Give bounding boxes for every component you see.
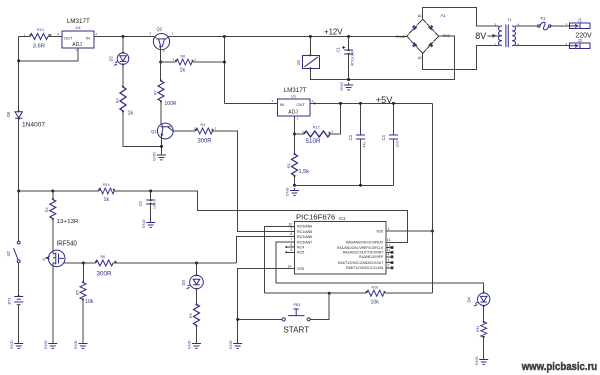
resistor R12 510R zigzag <box>304 131 330 137</box>
svg-text:1: 1 <box>388 227 390 231</box>
svg-text:RC1/AN5: RC1/AN5 <box>297 230 312 234</box>
wire R8 right lead <box>193 61 225 63</box>
svg-text:510R: 510R <box>306 139 322 145</box>
wire C1 top <box>348 37 350 51</box>
junction rail191 R2col <box>51 190 54 193</box>
wire C4 column top <box>393 103 395 135</box>
pin mark U1 out <box>314 103 316 105</box>
wire RC0 net <box>265 226 296 293</box>
capacitor C1 <box>336 46 355 66</box>
wire D4 to R11 <box>483 306 485 322</box>
svg-text:3.6R: 3.6R <box>33 44 45 50</box>
resistor R1 1.5k vertical <box>292 154 298 176</box>
wire secondary top to fuse <box>515 25 539 27</box>
wire U1 ADJ <box>294 116 296 134</box>
svg-text:GND: GND <box>152 152 157 161</box>
svg-text:A1: A1 <box>441 13 447 18</box>
svg-text:VDD: VDD <box>376 229 384 233</box>
ground Q1 <box>152 152 166 161</box>
svg-text:U4: U4 <box>76 25 82 30</box>
svg-text:BT1: BT1 <box>7 296 12 304</box>
svg-text:3: 3 <box>150 32 152 36</box>
svg-text:10k: 10k <box>371 299 380 305</box>
junction button gnd <box>236 318 239 321</box>
svg-text:RC2/AN6: RC2/AN6 <box>297 235 312 239</box>
svg-text:300R: 300R <box>97 272 113 278</box>
resistor R7 100R vertical <box>158 81 164 101</box>
wire button net horizontal <box>265 292 366 294</box>
transistor Q2 <box>153 34 169 50</box>
wire C3 column bottom <box>360 139 362 185</box>
pin marks R12 <box>304 132 306 134</box>
svg-text:Q1: Q1 <box>151 129 157 134</box>
svg-text:R9: R9 <box>189 313 193 318</box>
junction D3 tap <box>195 262 198 265</box>
wire Q2 collector right <box>170 36 407 38</box>
svg-text:1: 1 <box>297 117 299 121</box>
resistor R10 10k zigzag <box>367 290 384 296</box>
wire C4 column bottom <box>393 139 395 185</box>
watermark www.picbasic.ru <box>521 361 598 374</box>
junction node A <box>122 35 125 38</box>
svg-text:GND: GND <box>339 82 344 91</box>
svg-text:100n: 100n <box>153 201 157 209</box>
svg-text:2: 2 <box>96 32 98 36</box>
junction R12 rail <box>339 102 342 105</box>
wire Q3 drain right <box>64 262 83 263</box>
svg-text:5: 5 <box>291 248 293 252</box>
wire bottom rail 5V <box>295 184 394 186</box>
svg-text:100n: 100n <box>396 140 400 148</box>
capacitor C3 <box>348 134 367 147</box>
svg-text:1N4007: 1N4007 <box>22 122 46 129</box>
svg-text:2: 2 <box>312 99 314 103</box>
svg-text:GND: GND <box>73 340 78 349</box>
svg-text:C2: C2 <box>138 200 143 206</box>
svg-text:GND: GND <box>141 219 146 228</box>
junction rail x224 <box>223 35 226 38</box>
wire button left to gnd col <box>238 318 282 320</box>
svg-text:1: 1 <box>173 58 175 62</box>
battery BT1 <box>7 296 24 304</box>
junction rail191 left <box>17 190 20 193</box>
svg-text:RC0/AN4: RC0/AN4 <box>297 225 312 229</box>
junction VDD column <box>431 230 434 233</box>
svg-text:13: 13 <box>387 238 391 242</box>
regulator U1 LM317T box <box>278 99 311 116</box>
svg-text:3: 3 <box>58 32 60 36</box>
wire relay top <box>309 37 311 56</box>
LED D2 <box>109 53 129 66</box>
svg-text:GND: GND <box>285 187 290 196</box>
resistor R2 13+13R vertical <box>50 200 56 219</box>
switch U2 <box>6 241 20 262</box>
wire Q1 base lead right <box>173 130 195 132</box>
wire R12 left lead <box>295 133 305 135</box>
svg-text:U1: U1 <box>291 93 297 98</box>
svg-text:IN: IN <box>280 102 284 107</box>
svg-text:ADJ: ADJ <box>288 110 298 116</box>
junction relay tap <box>309 35 312 38</box>
junction bottom rail left <box>293 184 296 187</box>
svg-text:7: 7 <box>291 237 293 241</box>
svg-text:6: 6 <box>291 243 293 247</box>
resistor R13 3.6R zigzag <box>30 34 48 40</box>
svg-text:PIC16F676: PIC16F676 <box>296 212 335 221</box>
wire Q2emitter to R7 <box>160 62 162 81</box>
wire U4 IN to node A <box>94 36 154 38</box>
IC1 PIC16F676 box <box>294 221 386 273</box>
wire R3 down and right to Q1 emitter <box>123 111 162 146</box>
svg-text:C1: C1 <box>336 46 341 52</box>
wire secondary bottom to J2 <box>515 45 570 47</box>
svg-text:D3: D3 <box>181 279 186 285</box>
svg-text:4: 4 <box>388 253 390 257</box>
svg-text:300R: 300R <box>198 138 213 144</box>
wire U4 ADJ stub <box>19 48 78 61</box>
svg-text:2: 2 <box>332 130 334 134</box>
svg-text:GND: GND <box>43 340 48 349</box>
svg-text:R3: R3 <box>116 98 120 103</box>
svg-text:1: 1 <box>24 33 26 37</box>
wire RC2 net <box>237 237 296 263</box>
wire R7 to Q1 <box>160 101 162 123</box>
wire rail191 segment2 <box>114 191 408 242</box>
wire R4 to column x237 <box>213 131 296 232</box>
IC1 RC4 stub <box>287 246 295 248</box>
junction C4 top <box>392 102 395 105</box>
junction R8 x224 <box>223 61 226 64</box>
svg-text:GND: GND <box>474 356 479 365</box>
svg-text:47u: 47u <box>363 142 367 148</box>
svg-text:J1: J1 <box>578 18 583 23</box>
svg-text:1k: 1k <box>104 197 110 203</box>
wire D2 to R3 <box>122 64 124 87</box>
IC1 right pin names <box>337 229 384 270</box>
svg-text:1: 1 <box>566 22 568 26</box>
svg-text:R4: R4 <box>201 123 206 127</box>
junction Q1 emitter D2col <box>160 145 163 148</box>
resistor R4 300R zigzag <box>196 128 213 134</box>
wire bridge bottom to transformer <box>423 46 499 70</box>
pin marks R13 <box>30 34 32 36</box>
svg-text:2: 2 <box>51 33 53 37</box>
wire node A down to D2 <box>122 37 124 53</box>
svg-text:3: 3 <box>272 99 274 103</box>
svg-text:2: 2 <box>195 58 197 62</box>
IC1 RC5 stub <box>287 251 295 253</box>
svg-text:R6: R6 <box>101 255 106 259</box>
svg-text:R12: R12 <box>313 126 320 130</box>
svg-text:OUT: OUT <box>297 102 306 107</box>
wire bridge minus down <box>439 36 455 79</box>
resistor R3 1k vertical <box>120 87 126 111</box>
svg-text:S: S <box>42 256 45 261</box>
wire Q3 source down <box>52 267 54 342</box>
IC1 left pin names <box>297 225 312 271</box>
svg-text:11: 11 <box>387 248 391 252</box>
svg-text:3: 3 <box>388 258 390 262</box>
wire top rail left segment <box>19 36 30 38</box>
svg-text:R14: R14 <box>103 183 110 187</box>
tap arrow 8V <box>488 34 500 38</box>
wire D5 down to rail191 <box>18 118 20 191</box>
junction Q2 emitter R8 <box>159 61 162 64</box>
svg-text:J2: J2 <box>578 38 583 43</box>
svg-text:ADJ: ADJ <box>72 42 82 48</box>
resistor R11 vertical <box>481 322 487 338</box>
svg-text:OUT: OUT <box>64 36 73 41</box>
wire D3 top <box>196 263 198 275</box>
junction button tap <box>328 292 331 295</box>
svg-text:10k: 10k <box>85 299 94 305</box>
wire R5 bottom <box>82 300 84 342</box>
regulator U4 LM317T box <box>62 31 94 48</box>
wire left column top <box>18 37 20 112</box>
svg-text:GND: GND <box>187 340 192 349</box>
svg-text:IRF540: IRF540 <box>57 241 77 248</box>
wire C3 column top <box>360 103 362 135</box>
resistor R14 1k zigzag <box>99 188 115 194</box>
svg-text:1,5k: 1,5k <box>299 169 310 175</box>
svg-text:14: 14 <box>288 264 292 268</box>
wire R1 bottom <box>294 176 296 186</box>
connector J1 <box>570 23 591 28</box>
svg-text:R1: R1 <box>287 163 291 168</box>
svg-text:C4: C4 <box>381 134 386 140</box>
wire to U1 IN <box>224 102 277 104</box>
svg-text:R11: R11 <box>476 326 480 332</box>
bridge rectifier A1 <box>396 14 451 60</box>
connector J2 <box>570 43 591 48</box>
ground D4 <box>474 356 488 365</box>
svg-text:START: START <box>283 325 309 335</box>
buzzer U3 <box>296 55 320 68</box>
wire rail191 segment1 <box>19 190 99 192</box>
svg-text:2: 2 <box>163 49 165 53</box>
pin marks R14 <box>98 189 100 191</box>
svg-text:LM317T: LM317T <box>67 18 90 25</box>
svg-text:U3: U3 <box>296 59 301 65</box>
svg-text:1k: 1k <box>128 111 134 117</box>
svg-text:www.picbasic.ru: www.picbasic.ru <box>521 361 597 373</box>
svg-text:RC4: RC4 <box>297 246 304 250</box>
ground R5 <box>73 340 87 349</box>
svg-text:R2: R2 <box>45 207 49 212</box>
wire switch to battery <box>18 263 20 296</box>
resistor R9 vertical <box>194 304 200 325</box>
svg-text:2: 2 <box>388 264 390 268</box>
svg-text:RA3/MCLR/VPP: RA3/MCLR/VPP <box>359 255 384 259</box>
junction ADJ-left column <box>17 59 20 62</box>
svg-text:+12V: +12V <box>324 27 343 37</box>
wire R5 top <box>82 263 84 283</box>
svg-text:D4: D4 <box>467 296 472 302</box>
wire column to switch <box>18 191 20 241</box>
wire Q2 emitter down <box>160 47 162 62</box>
capacitor C4 <box>381 134 400 147</box>
IC1 right no-connect stubs <box>386 246 394 269</box>
wire VDD to +5V column <box>386 230 433 232</box>
svg-text:13+13R: 13+13R <box>57 219 79 225</box>
push button PB1 START <box>282 309 310 321</box>
svg-text:RA0/AN0/CIN+/ICSPDAT: RA0/AN0/CIN+/ICSPDAT <box>346 241 383 245</box>
junction C1 top <box>347 35 350 38</box>
junction C1 gnd rail <box>347 78 350 81</box>
svg-text:RA1/AN1/CIN-/VREF/ICSPCLK: RA1/AN1/CIN-/VREF/ICSPCLK <box>337 246 384 250</box>
svg-text:T1: T1 <box>507 17 512 22</box>
svg-text:2: 2 <box>215 127 217 131</box>
resistor R8 1k zigzag <box>176 59 192 65</box>
wire column x224 <box>223 37 225 104</box>
pin marks vertical components <box>18 49 485 338</box>
wire R6 right long <box>113 262 237 264</box>
ground battery <box>9 340 23 349</box>
svg-text:R8: R8 <box>181 55 186 59</box>
wire R10 to +5V column <box>385 292 433 294</box>
svg-text:1: 1 <box>172 32 174 36</box>
svg-text:U2: U2 <box>6 250 11 256</box>
svg-text:R5: R5 <box>76 290 80 295</box>
wire R9 to gnd <box>196 325 198 341</box>
ground 12V rail <box>339 82 353 91</box>
svg-text:D5: D5 <box>6 111 11 117</box>
svg-text:RA2/AN2/COUT/T0CKI/INT: RA2/AN2/COUT/T0CKI/INT <box>343 251 384 255</box>
svg-text:VSS: VSS <box>297 267 305 271</box>
svg-text:IN: IN <box>86 36 90 41</box>
junction gate divider <box>82 262 85 265</box>
svg-text:12: 12 <box>387 243 391 247</box>
svg-text:1k: 1k <box>180 67 186 73</box>
svg-text:R10: R10 <box>372 285 379 289</box>
svg-text:Q2: Q2 <box>157 27 163 32</box>
wire Q1 emitter to gnd <box>161 139 163 153</box>
svg-text:R13: R13 <box>37 28 44 32</box>
ground C2 <box>141 219 155 228</box>
wire RC3 net <box>276 242 484 293</box>
svg-text:GND: GND <box>9 340 14 349</box>
wire C2 top <box>150 191 152 200</box>
wire R2 top <box>52 191 54 200</box>
wire fuse to J1 <box>550 25 570 27</box>
svg-text:4700x16V: 4700x16V <box>351 50 355 66</box>
transistor Q1 <box>157 123 173 139</box>
wire +5V column down <box>432 103 434 293</box>
svg-text:RA5/T1CKI/OSC1/CLKIN: RA5/T1CKI/OSC1/CLKIN <box>346 266 384 270</box>
svg-text:PLUS: PLUS <box>396 35 406 39</box>
ground U1 adj <box>285 187 299 196</box>
svg-text:8V: 8V <box>475 31 486 41</box>
wire button right to tap <box>310 293 329 319</box>
wire bridge top to transformer <box>423 8 499 27</box>
LED D4 <box>467 293 490 306</box>
svg-text:GND: GND <box>228 340 233 349</box>
svg-text:D2: D2 <box>109 55 114 61</box>
svg-text:100R: 100R <box>165 101 177 107</box>
junction rail191 C2 <box>149 190 152 193</box>
wire battery to gnd <box>18 305 20 341</box>
wire C1 bottom <box>348 54 350 80</box>
svg-text:8: 8 <box>291 232 293 236</box>
capacitor C2 <box>138 200 157 209</box>
resistor R6 300R zigzag <box>96 260 114 266</box>
pin marks R8 <box>175 60 177 62</box>
pin marks R4 <box>195 129 197 131</box>
pin marks R6 <box>95 261 97 263</box>
wire R13 to U4 <box>48 36 62 38</box>
wire R12 up to rail <box>330 103 341 134</box>
junction ADJ node <box>293 133 296 136</box>
wire R8 left lead <box>161 61 176 63</box>
wire relay bottom <box>310 68 454 79</box>
fuse F1 <box>538 22 551 30</box>
junction C3 bottom <box>359 184 362 187</box>
MOSFET Q3 IRF540 <box>42 250 65 267</box>
ground D3 <box>187 340 201 349</box>
pin marks R10 <box>366 291 368 293</box>
pin number digits <box>24 22 568 134</box>
svg-text:F1: F1 <box>541 16 547 21</box>
resistor R5 10k vertical <box>80 283 86 300</box>
wire R11 to gnd <box>483 337 485 357</box>
wire VSS to gnd column <box>238 269 296 342</box>
wire ADJ to R1 <box>294 134 296 155</box>
wire R2 to Q3 <box>52 219 54 251</box>
svg-text:RA4/T1G/OSC2/AN3/CLKOUT: RA4/T1G/OSC2/AN3/CLKOUT <box>338 261 383 265</box>
svg-text:RC3/AN7: RC3/AN7 <box>297 240 312 244</box>
svg-text:R7: R7 <box>154 90 158 95</box>
svg-text:PB1: PB1 <box>294 303 301 307</box>
diode D5 1N4007 <box>6 111 22 118</box>
svg-text:1: 1 <box>76 48 78 52</box>
wire C2 bottom <box>150 204 152 220</box>
svg-text:C3: C3 <box>348 134 353 140</box>
junction C3 top <box>359 102 362 105</box>
svg-text:RC5: RC5 <box>297 251 304 255</box>
ground Q3 <box>43 340 57 349</box>
svg-text:9: 9 <box>291 226 293 230</box>
transformer T1 <box>493 23 520 48</box>
LED D3 <box>181 275 203 289</box>
wire D3 to R9 <box>196 289 198 305</box>
ground VSS column <box>228 340 242 349</box>
svg-text:+5V: +5V <box>376 95 393 105</box>
svg-text:IC1: IC1 <box>339 216 346 221</box>
IC1 pin numbers <box>288 222 391 268</box>
wire to R6 <box>83 262 95 264</box>
wire U1 OUT rail <box>310 102 433 104</box>
